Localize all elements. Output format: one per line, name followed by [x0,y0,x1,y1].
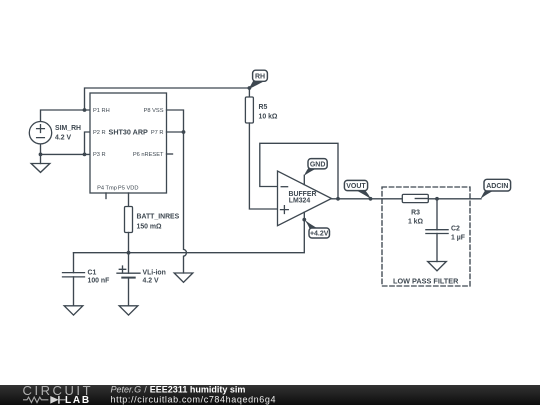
svg-text:EEE2311 humidity sim: EEE2311 humidity sim [150,384,246,394]
svg-text:P8 VSS: P8 VSS [144,108,164,114]
node junction VOUT [369,197,373,201]
svg-text:4.2 V: 4.2 V [143,277,159,284]
capacitor C1 100nF [63,253,110,306]
wire top rail P1RH to RH node [85,88,250,110]
wire RH node to R5 [248,88,250,97]
svg-text:P1 RH: P1 RH [93,108,110,114]
wire power rail to op-amp V+ [74,220,305,253]
svg-text:VOUT: VOUT [346,183,366,190]
net flag +4.2V [304,219,330,238]
svg-text:P7 R: P7 R [151,130,164,136]
node junction battery rail [127,251,131,255]
svg-text:P4 Tmp: P4 Tmp [97,186,117,192]
node junction RH [248,86,252,90]
svg-text:C2: C2 [451,226,460,233]
node junction source minus [39,153,43,157]
IC U1 SHT30 ARP [90,93,167,193]
battery VLi-ion 4.2V [117,253,166,306]
svg-text:150 mΩ: 150 mΩ [137,224,163,231]
svg-text:GND: GND [310,161,326,168]
resistor R5 10k [245,97,278,123]
net flag ADCIN [481,179,511,199]
svg-text:R5: R5 [259,104,268,111]
node junction op-amp output [336,197,340,201]
svg-text:RH: RH [255,73,265,80]
logo CIRCUIT LAB [23,383,94,405]
svg-text:P5 VDD: P5 VDD [118,186,139,192]
ground under VSS wire [174,273,193,282]
svg-text:BATT_INRES: BATT_INRES [137,214,180,221]
svg-text:ADCIN: ADCIN [486,183,508,190]
node junction P1 [83,108,87,112]
svg-text:http://circuitlab.com/c784haqe: http://circuitlab.com/c784haqedn6g4 [111,394,277,404]
svg-text:SHT30 ARP: SHT30 ARP [109,128,148,137]
node junction P3 [83,153,87,157]
wire P6 stub [167,153,173,155]
ground under SIM_RH [31,154,50,172]
svg-text:1 kΩ: 1 kΩ [408,218,424,225]
net flag VOUT [344,180,371,199]
node junction R3 C2 [435,197,439,201]
wire SIM_RH minus to P3 [41,144,91,154]
svg-text:P2 R: P2 R [93,130,106,136]
wire op-amp output to ADCIN [332,198,482,200]
svg-text:C1: C1 [88,270,97,277]
dashed box LOW PASS FILTER [382,187,470,286]
svg-text:SIM_RH: SIM_RH [55,125,81,132]
resistor R3 1k [402,194,428,225]
svg-text:1 µF: 1 µF [451,234,465,241]
svg-text:LAB: LAB [65,395,91,405]
wire P8 VSS down to ground with hop over rail [167,110,187,273]
svg-text:P3 R: P3 R [93,152,106,158]
wire P5 VDD to BATT_INRES [128,193,130,207]
capacitor C2 1uF [426,199,465,262]
net flag GND [304,159,327,176]
svg-text:4.2 V: 4.2 V [55,135,71,142]
svg-text:Peter.G: Peter.G [111,384,142,394]
wire BATT_INRES to rail [128,233,130,253]
wire R5 to op-amp plus input [249,123,277,209]
voltage source SIM_RH [29,122,81,144]
wire P2 to P3 link [85,132,91,154]
svg-text:VLi-ion: VLi-ion [143,270,166,277]
svg-text:10 kΩ: 10 kΩ [259,113,278,120]
svg-text:LOW PASS FILTER: LOW PASS FILTER [393,276,459,285]
wire P7 stub [167,131,184,133]
ground under C2 [428,262,447,271]
wire SIM_RH plus to P1 [41,110,91,122]
footer credit text [111,384,277,404]
wire feedback loop output to minus input [260,143,338,199]
wire P4 stub [105,193,107,199]
svg-text:P6 nRESET: P6 nRESET [133,152,164,158]
svg-text:100 nF: 100 nF [88,277,110,284]
footer bar [0,385,540,405]
svg-text:LM324: LM324 [289,198,311,205]
svg-text:R3: R3 [411,210,420,217]
node junction P7 [182,130,186,134]
node junction op-amp V+ [302,218,306,222]
ground under battery [119,306,138,315]
ground under C1 [64,306,83,315]
net flag RH [249,70,268,89]
op-amp BUFFER LM324 [278,171,332,226]
svg-text:+4.2V: +4.2V [310,231,329,238]
resistor BATT_INRES 150 mOhm [125,207,180,233]
